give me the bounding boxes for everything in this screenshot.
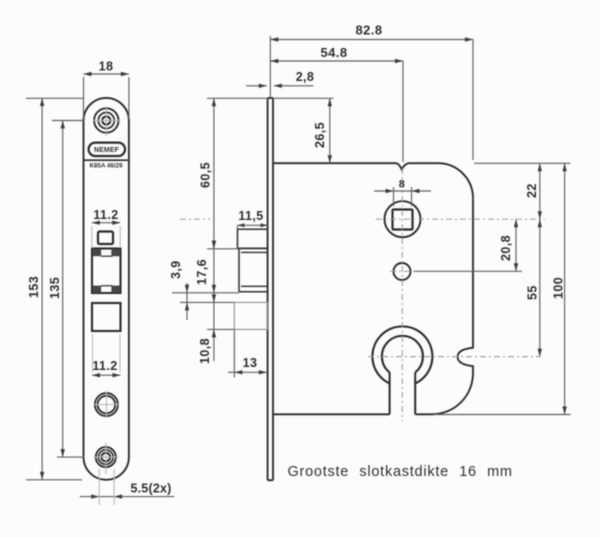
svg-text:3,9: 3,9 [169, 260, 183, 279]
svg-text:153: 153 [27, 276, 41, 298]
svg-text:17,6: 17,6 [195, 259, 209, 285]
svg-text:8: 8 [399, 179, 406, 191]
svg-text:11,5: 11,5 [238, 209, 263, 223]
svg-text:26,5: 26,5 [313, 122, 327, 148]
svg-text:54.8: 54.8 [321, 45, 348, 60]
svg-text:135: 135 [48, 277, 62, 299]
svg-text:Grootste slotkastdikte 16 mm: Grootste slotkastdikte 16 mm [288, 464, 513, 480]
svg-text:10,8: 10,8 [198, 338, 212, 364]
svg-text:11.2: 11.2 [92, 359, 117, 373]
svg-text:60,5: 60,5 [199, 162, 213, 188]
svg-text:2,8: 2,8 [296, 70, 315, 84]
svg-text:18: 18 [99, 60, 114, 74]
svg-text:55: 55 [526, 285, 540, 300]
svg-text:K85A 46/29: K85A 46/29 [90, 163, 123, 170]
svg-text:11.2: 11.2 [93, 208, 118, 222]
svg-text:82.8: 82.8 [356, 23, 383, 38]
svg-text:NEMEF: NEMEF [94, 147, 120, 154]
svg-text:22: 22 [525, 183, 539, 198]
svg-text:20,8: 20,8 [499, 235, 513, 261]
svg-text:100: 100 [552, 277, 566, 299]
svg-text:13: 13 [243, 356, 258, 370]
svg-text:5.5(2x): 5.5(2x) [130, 482, 171, 496]
